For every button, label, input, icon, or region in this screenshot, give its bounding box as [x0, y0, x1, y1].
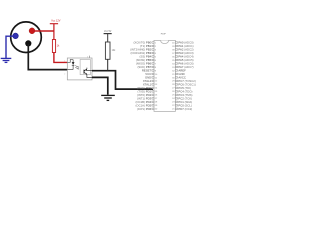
light arrows: [75, 66, 78, 69]
pin 28 stub: [175, 84, 177, 86]
pin 8 stub: [152, 66, 154, 68]
pin 33 stub: [175, 66, 177, 68]
node pin3 red: [29, 28, 35, 34]
pin 20 stub: [152, 108, 154, 110]
wire red to opto pin1: [54, 53, 67, 63]
wire blue: [6, 36, 16, 58]
pin 26 stub: [175, 91, 177, 93]
svg-text:(ICP1) PD6: (ICP1) PD6: [137, 107, 152, 111]
pin 13 stub: [152, 84, 154, 86]
LED D1 inside opto: [67, 60, 74, 70]
optocoupler U2 body: [67, 58, 92, 80]
pin 7 stub: [152, 63, 154, 65]
wire black to opto pin2: [28, 44, 67, 70]
wire red vertical: [53, 24, 55, 40]
wire red to vcc rail: [32, 30, 54, 32]
pin 10 stub: [152, 73, 154, 75]
wire emitter to ground: [87, 75, 92, 78]
pin 35 stub: [175, 59, 177, 61]
wire collector to IC net: [84, 69, 92, 71]
ground GND2: [101, 95, 115, 100]
pin 2 stub: [152, 45, 154, 47]
pin 24 stub: [175, 98, 177, 100]
svg-text:1: 1: [64, 61, 65, 63]
pin 16 stub: [152, 94, 154, 96]
pin 4 stub: [152, 52, 154, 54]
pin 37 stub: [175, 52, 177, 54]
pin 32 stub: [175, 70, 177, 72]
wire resistor to collector net: [107, 59, 109, 70]
pin 39 stub: [175, 45, 177, 47]
pin 18 stub: [152, 101, 154, 103]
pin 27 stub: [175, 87, 177, 89]
pin 31 stub: [175, 73, 177, 75]
pin 30 stub: [175, 77, 177, 79]
pin 19 stub: [152, 105, 154, 107]
pin 11 stub: [152, 77, 154, 79]
pin 9 stub: [152, 70, 154, 72]
svg-text:PDIP: PDIP: [161, 34, 167, 36]
pin 22 stub: [175, 105, 177, 107]
ground GND blue: [1, 58, 12, 62]
pin 5 stub: [152, 56, 154, 58]
pin 3 stub: [152, 49, 154, 51]
svg-text:Vcc 12V: Vcc 12V: [51, 19, 61, 22]
phototransistor Q1 sub-box: [80, 60, 90, 75]
transistor symbol: [84, 68, 87, 75]
pin 6 stub: [89, 56, 91, 58]
pin 25 stub: [175, 94, 177, 96]
resistor R1: [52, 40, 55, 53]
pin 17 stub: [152, 98, 154, 100]
pin 34 stub: [175, 63, 177, 65]
pin 12 stub: [152, 80, 154, 82]
svg-text:2: 2: [64, 74, 65, 76]
pin 21 stub: [175, 108, 177, 110]
pin 36 stub: [175, 56, 177, 58]
pin 14 stub: [152, 87, 154, 89]
pin 29 stub: [175, 80, 177, 82]
pin 15 stub: [152, 91, 154, 93]
pin 23 stub: [175, 101, 177, 103]
svg-text:Vcc 5V: Vcc 5V: [104, 31, 112, 33]
pin 1 stub: [152, 42, 154, 44]
svg-text:6: 6: [87, 57, 88, 59]
pin 6 stub: [152, 59, 154, 61]
IC U1 pin-1 notch: [161, 40, 169, 43]
connector J1 (XLR/DIN socket): [11, 22, 42, 53]
node pin1 black: [25, 40, 31, 46]
resistor R2 pull-up: [105, 42, 110, 59]
IC U1 body (ATmega16 PDIP-40): [154, 40, 175, 111]
svg-text:PD7 (OC2): PD7 (OC2): [178, 107, 192, 111]
pin 38 stub: [175, 49, 177, 51]
pin 40 stub: [175, 42, 177, 44]
node pin2 blue: [13, 33, 19, 39]
